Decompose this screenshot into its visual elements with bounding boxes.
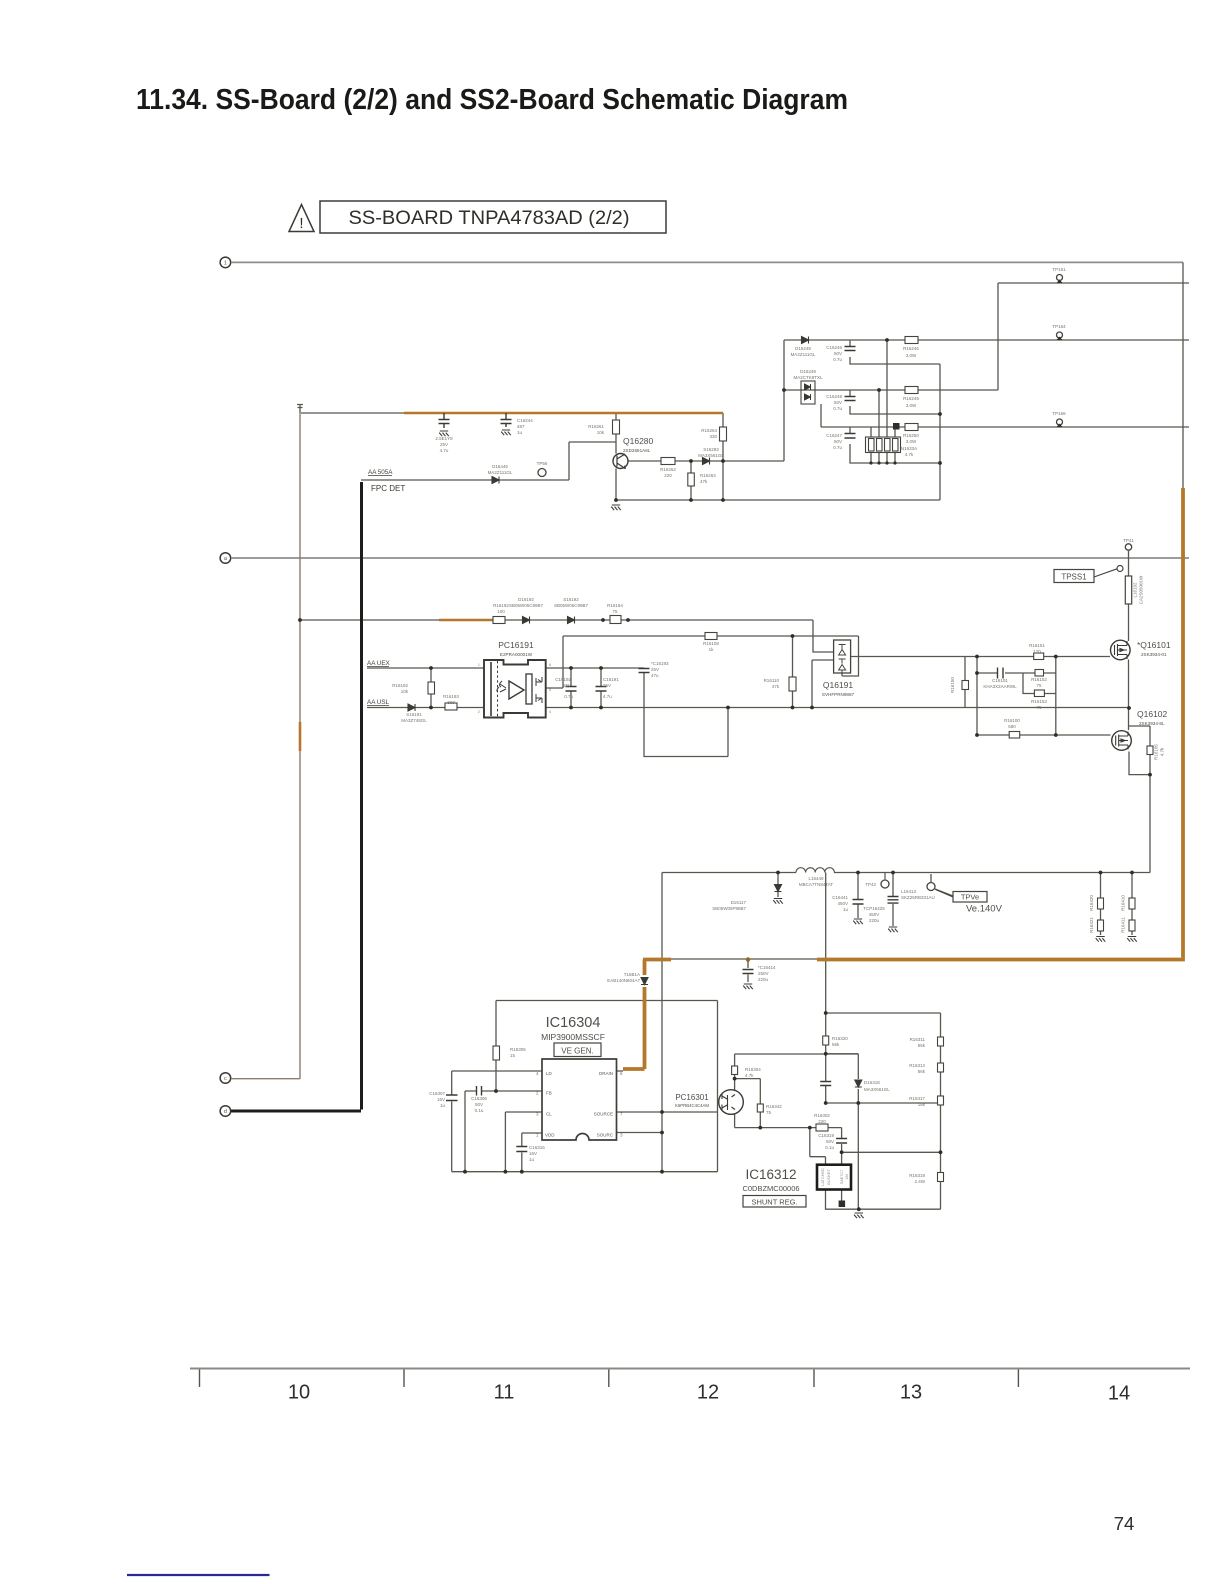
svg-text:16V: 16V [529, 1151, 537, 1156]
svg-text:R16320: R16320 [832, 1036, 848, 1041]
svg-text:E2PRA00001W: E2PRA00001W [500, 652, 533, 657]
svg-text:C16244: C16244 [517, 418, 533, 423]
svg-text:18k: 18k [918, 1102, 926, 1107]
svg-text:LATCHED: LATCHED [821, 1168, 825, 1186]
svg-text:C16441: C16441 [832, 895, 848, 900]
svg-text:L16449: L16449 [808, 876, 824, 881]
svg-text:R16193: R16193 [443, 694, 459, 699]
svg-text:DRAIN: DRAIN [599, 1071, 613, 1076]
svg-text:75: 75 [1036, 683, 1042, 688]
svg-text:R16304: R16304 [745, 1067, 761, 1072]
svg-text:R16311: R16311 [910, 1037, 926, 1042]
svg-text:CA2S05001W: CA2S05001W [1139, 575, 1144, 604]
svg-text:Q16191: Q16191 [823, 680, 854, 690]
svg-text:56k: 56k [918, 1069, 926, 1074]
svg-text:SKZ25RB331AU: SKZ25RB331AU [901, 895, 935, 900]
svg-text:R16264: R16264 [701, 428, 717, 433]
svg-text:12: 12 [697, 1382, 719, 1404]
svg-text:56k: 56k [918, 1043, 926, 1048]
svg-text:SB05W05C99B7: SB05W05C99B7 [554, 603, 589, 608]
svg-text:R16305: R16305 [510, 1047, 526, 1052]
svg-text:C0DBZMC00006: C0DBZMC00006 [742, 1184, 799, 1193]
svg-text:250V: 250V [758, 971, 769, 976]
svg-text:MA3X561GL: MA3X561GL [864, 1087, 890, 1092]
svg-text:0.7u: 0.7u [833, 445, 842, 450]
svg-text:R16342: R16342 [766, 1104, 782, 1109]
svg-text:10k: 10k [401, 689, 409, 694]
svg-text:220: 220 [818, 1119, 826, 1124]
svg-text:75: 75 [766, 1110, 772, 1115]
svg-text:R16151: R16151 [1029, 643, 1045, 648]
svg-text:SHUNT REG.: SHUNT REG. [751, 1198, 797, 1207]
svg-text:S16192: S16192 [563, 597, 579, 602]
svg-text:2SK3934-8L: 2SK3934-8L [1139, 721, 1165, 726]
svg-text:C16191: C16191 [603, 677, 619, 682]
svg-text:PC16301: PC16301 [675, 1093, 709, 1102]
svg-text:MA2Z111GL: MA2Z111GL [791, 352, 816, 357]
svg-text:50V: 50V [475, 1102, 483, 1107]
svg-text:C16247: C16247 [826, 433, 842, 438]
svg-text:*C16414: *C16414 [758, 965, 776, 970]
svg-text:4.7k: 4.7k [905, 452, 914, 457]
svg-text:R16153: R16153 [1031, 699, 1047, 704]
svg-text:100: 100 [497, 609, 505, 614]
svg-text:R16411: R16411 [1121, 917, 1126, 933]
svg-text:10k: 10k [597, 430, 605, 435]
svg-text:R16318: R16318 [909, 1173, 925, 1178]
svg-text:R16250: R16250 [903, 433, 919, 438]
svg-text:680: 680 [1008, 724, 1016, 729]
svg-text:N1633A: N1633A [901, 446, 917, 451]
svg-text:R16108: R16108 [703, 641, 719, 646]
svg-text:AA 505A: AA 505A [368, 469, 393, 476]
svg-text:TPVe: TPVe [961, 893, 979, 902]
svg-text:C16306: C16306 [471, 1096, 487, 1101]
svg-text:TCP16425: TCP16425 [863, 906, 885, 911]
svg-text:11.34. SS-Board (2/2) and SS2-: 11.34. SS-Board (2/2) and SS2-Board Sche… [136, 84, 848, 116]
svg-text:D16248: D16248 [795, 346, 811, 351]
svg-text:AA UEX: AA UEX [367, 660, 391, 667]
svg-text:R16421: R16421 [1089, 917, 1094, 933]
svg-text:TP42: TP42 [865, 882, 876, 887]
svg-text:L16192: L16192 [1133, 582, 1138, 598]
svg-text:D16446: D16446 [492, 464, 508, 469]
svg-text:25V: 25V [440, 442, 448, 447]
svg-text:47k: 47k [700, 479, 708, 484]
svg-text:1u: 1u [843, 907, 849, 912]
svg-text:1k: 1k [709, 647, 715, 652]
svg-text:13: 13 [900, 1382, 922, 1404]
svg-text:1u: 1u [440, 1103, 446, 1108]
svg-text:C16316: C16316 [529, 1145, 545, 1150]
svg-text:C16246: C16246 [826, 345, 842, 350]
svg-text:3.0W: 3.0W [906, 353, 917, 358]
svg-text:120: 120 [1033, 649, 1041, 654]
svg-text:75: 75 [1036, 705, 1042, 710]
svg-text:50V: 50V [834, 439, 842, 444]
svg-text:SOURC: SOURC [597, 1133, 614, 1138]
svg-text:R16410: R16410 [1121, 895, 1126, 911]
svg-text:SB05W05P88B7: SB05W05P88B7 [712, 906, 746, 911]
svg-text:56k: 56k [832, 1042, 840, 1047]
svg-text:4.7k: 4.7k [1160, 747, 1165, 756]
svg-text:220: 220 [664, 473, 672, 478]
svg-text:14: 14 [1108, 1383, 1130, 1405]
svg-text:MIP3900MSSCF: MIP3900MSSCF [541, 1032, 605, 1042]
svg-text:487: 487 [517, 424, 525, 429]
svg-text:R16100: R16100 [1004, 718, 1020, 723]
svg-text:C16248: C16248 [826, 394, 842, 399]
svg-text:450V: 450V [837, 901, 848, 906]
svg-text:47u: 47u [651, 673, 659, 678]
svg-text:R16194: R16194 [607, 603, 623, 608]
svg-text:BUCKET: BUCKET [827, 1169, 831, 1185]
svg-text:MA3Z748GL: MA3Z748GL [401, 718, 427, 723]
svg-text:25V: 25V [651, 667, 659, 672]
svg-text:4.7u: 4.7u [603, 694, 612, 699]
svg-text:*C16193: *C16193 [651, 661, 669, 666]
svg-text:VDD: VDD [545, 1133, 555, 1138]
svg-text:IC16304: IC16304 [546, 1015, 601, 1031]
svg-text:0.7u: 0.7u [833, 406, 842, 411]
svg-text:*Q16101: *Q16101 [1137, 640, 1171, 650]
svg-text:VE GEN.: VE GEN. [561, 1047, 593, 1056]
svg-text:LD: LD [546, 1071, 553, 1076]
svg-text:R16249: R16249 [903, 396, 919, 401]
svg-text:TP164: TP164 [1052, 324, 1066, 329]
svg-text:1u: 1u [517, 430, 523, 435]
svg-text:3.0W: 3.0W [906, 439, 917, 444]
svg-text:330: 330 [709, 434, 717, 439]
svg-text:75: 75 [612, 609, 618, 614]
svg-text:D16117: D16117 [731, 900, 747, 905]
svg-text:47k: 47k [772, 684, 780, 689]
svg-text:IC16312: IC16312 [745, 1167, 796, 1182]
svg-text:D16249: D16249 [800, 369, 816, 374]
svg-text:MA2CTK8TXL: MA2CTK8TXL [793, 375, 823, 380]
svg-text:R16261: R16261 [588, 424, 604, 429]
svg-text:50V: 50V [834, 400, 842, 405]
svg-text:R16302: R16302 [814, 1113, 830, 1118]
svg-text:220u: 220u [758, 977, 769, 982]
svg-text:2.4W: 2.4W [914, 1179, 925, 1184]
svg-text:2SK3934-01: 2SK3934-01 [1141, 652, 1167, 657]
svg-text:1M: 1M [845, 1174, 849, 1179]
svg-text:MA2Z111GL: MA2Z111GL [488, 470, 513, 475]
svg-text:S16191: S16191 [406, 712, 422, 717]
svg-text:AA USL: AA USL [367, 699, 390, 706]
svg-text:D16192: D16192 [518, 597, 534, 602]
svg-text:SVHFPRN9887: SVHFPRN9887 [822, 692, 855, 697]
svg-text:11: 11 [494, 1382, 515, 1404]
svg-text:!: ! [299, 215, 303, 232]
svg-text:SAE7C7: SAE7C7 [840, 1170, 844, 1185]
svg-text:FPC DET: FPC DET [371, 484, 405, 493]
svg-text:SS-BOARD TNPA4783AD (2/2): SS-BOARD TNPA4783AD (2/2) [349, 207, 630, 229]
svg-text:R16317: R16317 [909, 1096, 925, 1101]
svg-text:CL: CL [546, 1112, 552, 1117]
svg-text:4.7u: 4.7u [440, 448, 449, 453]
svg-text:1u: 1u [529, 1157, 535, 1162]
svg-text:Q16280: Q16280 [623, 436, 654, 446]
svg-text:R16312: R16312 [909, 1063, 925, 1068]
svg-text:TP56: TP56 [537, 461, 548, 466]
svg-text:TP166: TP166 [1052, 411, 1066, 416]
svg-text:S16283: S16283 [703, 447, 719, 452]
svg-text:EAB140N604A7: EAB140N604A7 [607, 978, 640, 983]
svg-text:Ve.140V: Ve.140V [966, 904, 1003, 915]
svg-text:50V: 50V [826, 1139, 834, 1144]
svg-text:SOURCE: SOURCE [594, 1112, 613, 1117]
svg-text:2.5E1Y8: 2.5E1Y8 [435, 436, 453, 441]
svg-text:D16318: D16318 [864, 1080, 880, 1085]
svg-text:C16307: C16307 [429, 1091, 445, 1096]
svg-text:d: d [224, 1109, 227, 1115]
svg-text:R16105: R16105 [1154, 744, 1159, 760]
svg-text:R16262: R16262 [660, 467, 676, 472]
svg-text:K6PRB4C4C4AM: K6PRB4C4C4AM [675, 1103, 709, 1108]
svg-text:0.7u: 0.7u [564, 694, 573, 699]
svg-text:C16101: C16101 [992, 678, 1008, 683]
svg-text:360: 360 [447, 700, 455, 705]
svg-text:R16110: R16110 [764, 678, 780, 683]
svg-text:10: 10 [288, 1382, 310, 1404]
svg-text:R16150: R16150 [950, 677, 955, 693]
svg-text:450V: 450V [869, 912, 880, 917]
svg-text:26V: 26V [563, 683, 571, 688]
svg-text:TPSS1: TPSS1 [1061, 573, 1087, 582]
svg-text:SB05W05C99B7: SB05W05C99B7 [509, 603, 544, 608]
svg-text:Q16102: Q16102 [1137, 709, 1168, 719]
svg-text:74: 74 [1114, 1513, 1135, 1534]
svg-text:4.7k: 4.7k [745, 1073, 754, 1078]
svg-text:T16B1A: T16B1A [624, 972, 640, 977]
svg-text:1: 1 [224, 261, 227, 267]
svg-text:TP41: TP41 [1123, 538, 1134, 543]
svg-text:FB: FB [546, 1091, 552, 1096]
svg-text:TP161: TP161 [1052, 267, 1066, 272]
svg-text:c: c [224, 1076, 227, 1082]
svg-text:0.1u: 0.1u [825, 1145, 834, 1150]
svg-text:16V: 16V [437, 1097, 445, 1102]
svg-text:0.1u: 0.1u [475, 1108, 484, 1113]
svg-text:2SD2661A6L: 2SD2661A6L [623, 448, 651, 453]
svg-text:L16413: L16413 [901, 889, 917, 894]
svg-text:0.7u: 0.7u [833, 357, 842, 362]
svg-text:C16319: C16319 [818, 1133, 834, 1138]
svg-text:MBCA7TN84TAT: MBCA7TN84TAT [799, 882, 834, 887]
svg-text:PC16191: PC16191 [498, 640, 534, 650]
svg-text:R16192: R16192 [493, 603, 509, 608]
svg-text:220u: 220u [869, 918, 880, 923]
svg-text:KHA3X2AARWL: KHA3X2AARWL [983, 684, 1017, 689]
svg-text:R16420: R16420 [1089, 895, 1094, 911]
svg-text:50V: 50V [834, 351, 842, 356]
svg-text:R16246: R16246 [903, 346, 919, 351]
svg-text:15: 15 [510, 1053, 516, 1058]
svg-text:R16192: R16192 [392, 683, 408, 688]
svg-text:R16263: R16263 [700, 473, 716, 478]
svg-text:R16152: R16152 [1031, 677, 1047, 682]
svg-text:C16192: C16192 [555, 677, 571, 682]
svg-text:26V: 26V [603, 683, 611, 688]
svg-text:MA3X561GL: MA3X561GL [698, 453, 724, 458]
svg-text:3.0W: 3.0W [906, 403, 917, 408]
